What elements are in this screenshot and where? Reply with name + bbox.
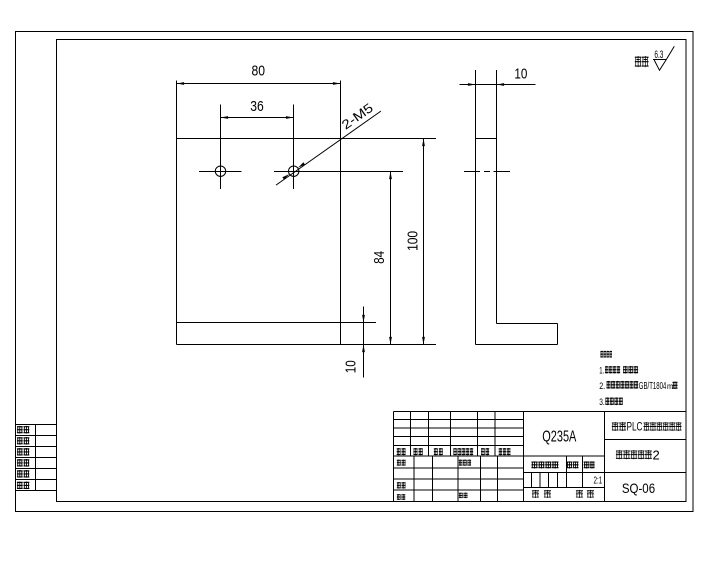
left section row lines bbox=[394, 419, 524, 421]
label 审核 bbox=[397, 482, 401, 489]
front view left edge (also ext line of dim 80) bbox=[176, 81, 178, 345]
front view bottom edge (extended right as ext line of dims 84/100) bbox=[177, 344, 437, 346]
label 阶段标记 bbox=[531, 461, 538, 468]
svg-text:GB/T1804: GB/T1804 bbox=[639, 381, 667, 392]
label 分区 bbox=[434, 448, 438, 455]
svg-text:m: m bbox=[667, 381, 673, 391]
svg-text:3.: 3. bbox=[599, 397, 605, 408]
dimension 80 bbox=[177, 63, 341, 85]
left section upper column lines bbox=[410, 412, 412, 457]
title block divider x=604.5 bbox=[604, 412, 606, 502]
roughness symbol bar bbox=[653, 59, 667, 61]
side view top edge bbox=[476, 138, 497, 140]
front view bend line (extended right as ext line of dim 10) bbox=[177, 322, 377, 324]
label 批准 bbox=[459, 493, 463, 499]
text 其余 bbox=[635, 56, 642, 67]
label 工艺 bbox=[397, 494, 401, 500]
label 设计 bbox=[397, 460, 401, 466]
label 更改文件号 bbox=[453, 448, 457, 455]
middle section lines bbox=[524, 472, 687, 474]
label 比例 bbox=[584, 461, 589, 468]
title block texts bbox=[397, 420, 682, 500]
inner border frame bbox=[57, 40, 687, 502]
margin label row 5 bbox=[17, 470, 23, 478]
outer border frame bbox=[16, 32, 694, 512]
side view left edge (also ext line of dim 10) bbox=[475, 70, 477, 345]
svg-text:100: 100 bbox=[405, 231, 422, 251]
label 年月日 bbox=[499, 448, 503, 455]
margin table row lines bbox=[16, 424, 57, 426]
part name 气缸安装板2 bbox=[616, 450, 623, 460]
margin label row 3 bbox=[17, 448, 23, 456]
hole H1 circle bbox=[215, 166, 225, 176]
project name 基于PLC物体分拣装置 bbox=[612, 422, 619, 431]
label 处数 bbox=[413, 448, 417, 455]
dimension 84 bbox=[371, 172, 392, 345]
svg-text:PLC: PLC bbox=[627, 420, 643, 434]
label 共 张 第 张 bbox=[532, 490, 539, 498]
svg-text:1.: 1. bbox=[599, 365, 604, 376]
svg-text:36: 36 bbox=[250, 98, 264, 115]
side view hole centerline (dashed) bbox=[464, 171, 510, 173]
left section lower column lines bbox=[413, 456, 415, 502]
right column row line bbox=[605, 439, 687, 441]
border frames bbox=[16, 32, 694, 512]
svg-text:SQ-06: SQ-06 bbox=[622, 480, 655, 496]
side view right edge of upright (also ext line of dim 10) bbox=[496, 70, 498, 324]
dimension 100 bbox=[405, 139, 425, 345]
title block left edge bbox=[393, 412, 395, 502]
dimension 36 bbox=[221, 98, 294, 119]
heading 技术要求 bbox=[600, 351, 603, 358]
title block divider x=523 bbox=[523, 412, 525, 502]
label 标准化 bbox=[459, 460, 463, 466]
side view bottom edge bbox=[476, 344, 558, 346]
dimension 10 (side view top) bbox=[460, 66, 536, 86]
svg-text:2:1: 2:1 bbox=[594, 475, 603, 486]
svg-text:Q235A: Q235A bbox=[542, 429, 576, 446]
title block top edge bbox=[394, 411, 687, 413]
label 重量 bbox=[567, 461, 573, 468]
hole H2 circle bbox=[289, 166, 299, 176]
svg-text:2: 2 bbox=[653, 447, 660, 462]
side view foot top edge bbox=[497, 323, 558, 325]
roughness check symbol bbox=[654, 46, 674, 70]
margin label row 2 bbox=[17, 437, 23, 445]
label 标记 bbox=[397, 448, 401, 455]
svg-text:10: 10 bbox=[514, 66, 527, 83]
leader 2-M5 bbox=[276, 100, 381, 185]
hole H2 horizontal centerline (extended right as ext line of dim 84) bbox=[274, 171, 403, 173]
svg-text:84: 84 bbox=[371, 251, 388, 264]
margin label row 6 bbox=[17, 482, 23, 490]
front view right edge (also ext line of dim 80) bbox=[340, 81, 342, 345]
front view top edge (extended right as ext line of dim 100) bbox=[177, 138, 437, 140]
label 签名 bbox=[481, 448, 485, 455]
svg-text:2.: 2. bbox=[599, 381, 605, 392]
hole H1 horizontal centerline bbox=[199, 171, 242, 173]
dimension 10 (plate thickness, bottom) bbox=[343, 307, 365, 378]
svg-text:80: 80 bbox=[252, 63, 266, 80]
svg-text:10: 10 bbox=[343, 360, 360, 373]
margin table column line bbox=[35, 425, 37, 491]
margin label row 4 bbox=[17, 459, 23, 467]
hole H2 vertical centerline bbox=[293, 105, 295, 190]
hole H1 vertical centerline bbox=[220, 105, 222, 190]
side view foot right edge bbox=[557, 324, 559, 345]
margin label row 1 bbox=[17, 426, 23, 434]
